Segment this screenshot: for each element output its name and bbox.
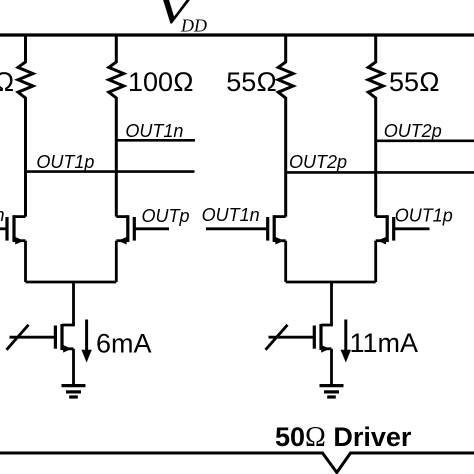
svg-text:11mA: 11mA xyxy=(350,328,419,358)
svg-text:DD: DD xyxy=(180,16,207,36)
svg-text:OUT1n: OUT1n xyxy=(125,121,183,141)
svg-text:OUT1p: OUT1p xyxy=(395,206,453,226)
svg-text:6mA: 6mA xyxy=(96,329,152,359)
svg-text:OUT1n: OUT1n xyxy=(202,205,260,225)
svg-text:OUT2p: OUT2p xyxy=(289,152,347,172)
svg-text:55Ω: 55Ω xyxy=(226,67,277,97)
svg-text:100Ω: 100Ω xyxy=(128,67,194,97)
svg-text:100Ω: 100Ω xyxy=(0,67,14,97)
svg-text:OUTn: OUTn xyxy=(0,205,5,225)
svg-text:OUT1p: OUT1p xyxy=(36,152,94,172)
svg-text:OUT2p: OUT2p xyxy=(384,121,442,141)
svg-text:55Ω: 55Ω xyxy=(389,67,440,97)
svg-text:OUTp: OUTp xyxy=(142,206,190,226)
svg-text:50Ω Driver: 50Ω Driver xyxy=(275,422,412,453)
